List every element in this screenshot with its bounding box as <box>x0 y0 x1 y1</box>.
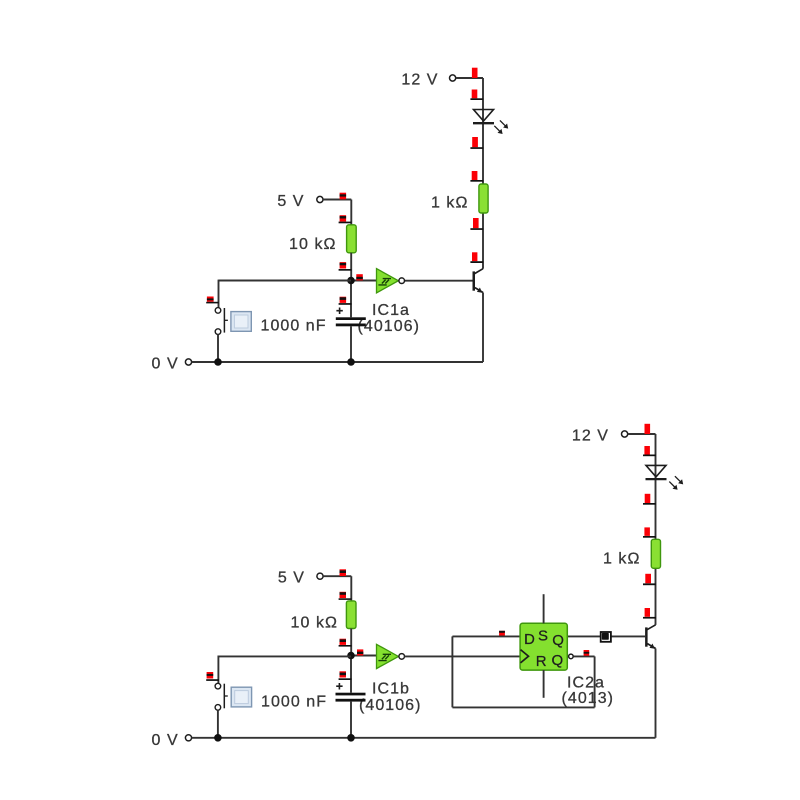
wire inverter output to Q1 base <box>404 280 472 282</box>
svg-text:1 kΩ: 1 kΩ <box>603 550 641 567</box>
wire junction to inverter input <box>351 280 377 282</box>
svg-text:12 V: 12 V <box>572 428 609 445</box>
LED D2 <box>646 465 684 489</box>
wire inverter output to FF clock input <box>404 655 520 657</box>
current marker above push switch (top) <box>206 297 219 304</box>
current marker below LED (bottom) <box>643 494 656 505</box>
logic level indicator on Q wire <box>601 632 611 642</box>
terminal 12V bottom <box>622 431 628 437</box>
current marker above transistor collector <box>470 252 483 263</box>
svg-text:R: R <box>536 653 547 670</box>
svg-text:(40106): (40106) <box>358 318 421 335</box>
wire FF Q output to Q2 base <box>567 635 645 637</box>
current marker below junction (bottom) <box>339 671 352 680</box>
wire feedback loop left vertical <box>451 636 453 707</box>
terminal 12V top <box>450 75 456 81</box>
push switch SW2 (bottom) <box>215 683 252 710</box>
svg-text:5 V: 5 V <box>278 569 305 586</box>
wire junction to capacitor (bottom) <box>350 656 352 693</box>
node capacitor/0V rail (bottom) <box>347 734 355 742</box>
wire capacitor to 0V rail (bottom) <box>350 702 352 738</box>
push switch SW1 (top) <box>215 308 251 335</box>
wire 12V vertical branch (bottom collector branch) <box>655 434 657 625</box>
wire left branch horizontal (junction to switch corner) bottom <box>218 655 351 657</box>
LED D1 <box>473 110 508 135</box>
wire 12V vertical branch (collector branch) <box>482 78 484 269</box>
current marker below LED <box>470 137 483 149</box>
current marker below 1k resistor <box>470 218 483 230</box>
svg-text:12 V: 12 V <box>401 72 438 89</box>
terminal 0V top <box>185 359 191 365</box>
svg-text:1000 nF: 1000 nF <box>261 694 327 711</box>
transistor Q2 (NPN) <box>645 625 656 649</box>
terminal 0V bottom <box>185 735 191 741</box>
current marker on inverter input wire <box>356 274 363 280</box>
wire junction to inverter input (bottom) <box>351 655 377 657</box>
wire 12V horizontal <box>456 77 483 79</box>
svg-text:D: D <box>524 631 535 648</box>
node junction (10k/cap/inverter) bottom <box>347 652 355 660</box>
current marker on 5V horizontal wire (bottom) <box>340 569 347 576</box>
terminal 5V top <box>317 196 323 202</box>
wire capacitor to 0V rail <box>350 326 352 362</box>
wire 12V horizontal (bottom) <box>628 433 656 435</box>
current marker below 10k resistor <box>339 262 352 271</box>
current marker above 10k resistor <box>339 215 352 223</box>
wire left branch horizontal (junction to switch corner) <box>219 280 352 282</box>
svg-text:1 kΩ: 1 kΩ <box>431 195 469 212</box>
wire 10k to junction (bottom) <box>350 629 352 656</box>
wire Qbar output to loop right vertical <box>573 655 594 657</box>
node junction (10k/cap/inverter) top <box>347 277 355 285</box>
wire switch to 0V rail (top) <box>217 334 219 362</box>
inverter gate IC1b (Schmitt) <box>377 644 405 668</box>
wire switch branch vertical upper <box>218 280 220 308</box>
wire feedback loop bottom horizontal <box>452 706 594 708</box>
wire feedback loop right vertical <box>594 656 596 707</box>
wire Q2 emitter to 0V rail <box>655 649 657 738</box>
svg-text:S: S <box>538 627 548 644</box>
svg-text:(40106): (40106) <box>359 697 422 714</box>
current marker above 1k resistor (bottom) <box>643 527 656 537</box>
current marker below 12V corner (bottom) <box>643 446 656 456</box>
flip-flop IC2a (4013) <box>520 594 573 698</box>
svg-text:1000 nF: 1000 nF <box>261 318 327 335</box>
svg-text:5 V: 5 V <box>277 193 304 210</box>
wire switch to 0V rail (bottom) <box>217 710 219 738</box>
current marker above push switch (bottom) <box>206 672 219 681</box>
wire junction to capacitor <box>350 281 352 318</box>
terminal 5V bottom <box>317 573 323 579</box>
current marker on D input wire <box>499 631 505 636</box>
capacitor C1 1000nF (top) <box>336 308 366 327</box>
current marker below 12V corner <box>470 90 483 101</box>
inverter gate IC1a (Schmitt) <box>377 269 405 293</box>
wire 0V rail (top) <box>192 361 483 363</box>
current marker on inverter input wire (bottom) <box>357 649 363 655</box>
svg-text:Q: Q <box>552 652 564 669</box>
resistor R3 10k (bottom) <box>346 601 356 629</box>
resistor R4 1k (bottom) <box>651 539 660 568</box>
capacitor C2 1000nF (bottom) <box>336 683 366 702</box>
wire 0V rail (bottom) <box>192 737 656 739</box>
resistor R2 1k (top) <box>479 184 488 213</box>
current marker on 5V horizontal wire <box>340 193 347 200</box>
wire 5V vertical to 10k <box>350 200 352 225</box>
svg-text:10 kΩ: 10 kΩ <box>291 614 338 631</box>
wire feedback loop to D input <box>452 635 520 637</box>
current marker on Qbar wire <box>584 650 590 656</box>
transistor Q1 (NPN) <box>473 269 484 293</box>
svg-text:Q: Q <box>552 632 564 649</box>
wire Q1 emitter to 0V rail <box>482 293 484 363</box>
current marker below junction (top) <box>339 297 352 305</box>
svg-text:0 V: 0 V <box>152 732 179 749</box>
svg-text:IC1a: IC1a <box>372 302 410 319</box>
current marker on 12V horizontal wire (bottom) <box>645 424 651 434</box>
current marker below 10k resistor (bottom) <box>339 639 352 647</box>
current marker above 10k resistor (bottom) <box>339 592 352 600</box>
node switch/0V rail (bottom) <box>214 734 222 742</box>
current marker below 1k resistor (bottom) <box>643 574 656 585</box>
svg-text:IC1b: IC1b <box>372 681 410 698</box>
resistor R1 10k (top) <box>347 225 357 253</box>
svg-text:0 V: 0 V <box>152 355 179 372</box>
current marker above transistor collector (bottom) <box>643 608 656 619</box>
wire 5V vertical to 10k (bottom) <box>350 576 352 601</box>
wire 10k to junction <box>350 253 352 281</box>
wire 5V horizontal <box>323 199 351 201</box>
wire switch branch vertical upper (bottom) <box>217 656 219 684</box>
node switch/0V rail (top) <box>214 358 222 366</box>
svg-text:(4013): (4013) <box>562 690 615 707</box>
current marker on 12V horizontal wire <box>472 68 478 78</box>
node capacitor/0V rail (top) <box>347 358 355 366</box>
wire 5V horizontal (bottom) <box>323 575 351 577</box>
svg-text:10 kΩ: 10 kΩ <box>289 236 336 253</box>
current marker above 1k resistor <box>470 171 483 182</box>
